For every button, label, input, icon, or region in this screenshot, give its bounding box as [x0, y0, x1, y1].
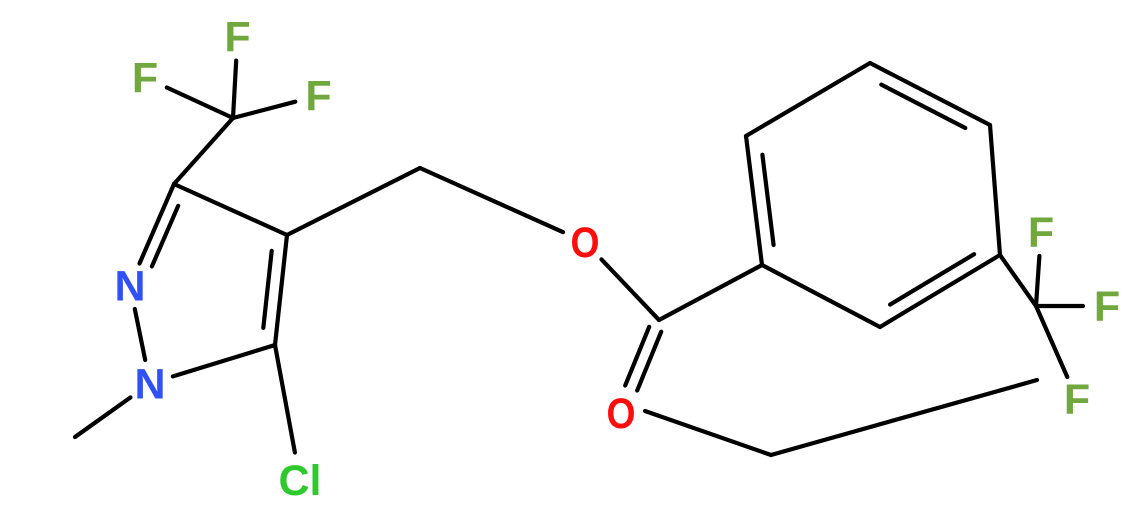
ring C4b-C5b — [990, 125, 1000, 255]
bond N1-methyl — [75, 397, 131, 437]
ring C3b-C4b — [870, 63, 990, 125]
svg-text:F: F — [305, 73, 331, 121]
chain V-AE — [771, 380, 1037, 455]
bond C3=N2 main — [140, 184, 175, 264]
bond CF3Cb-F6 — [1036, 306, 1067, 377]
svg-text:N: N — [114, 263, 145, 311]
bond N1-C5 — [173, 345, 275, 376]
chain O2-V — [645, 411, 771, 455]
svg-text:F: F — [224, 14, 250, 62]
svg-text:F: F — [1094, 283, 1120, 331]
bond CF3C-F2 — [167, 88, 233, 119]
svg-text:F: F — [1064, 376, 1090, 424]
bond C5-Cl — [275, 345, 295, 453]
ring C1=C2 inner — [762, 155, 773, 245]
svg-text:N: N — [134, 361, 165, 409]
ring C6b-C1 — [762, 265, 880, 327]
bond CF3Cb-F4 — [1036, 256, 1039, 306]
bond CH2-O1 — [420, 168, 563, 232]
bond C5-C4 main — [275, 235, 287, 345]
bond CF3C-C3 — [174, 118, 233, 184]
ring C3b=C4b inner — [881, 85, 965, 128]
bond C4=C5 inner — [263, 251, 271, 328]
bond CF3C-F1 (left CF3 top) — [233, 61, 236, 118]
bond CF3Cb-F5 — [1036, 304, 1083, 308]
ring C1-C2 — [746, 136, 762, 265]
bond Ca=O2 line1 — [637, 332, 661, 391]
bond Ca=O2 line2 — [625, 327, 649, 386]
svg-text:O: O — [571, 219, 600, 267]
bond C4-CH2 — [287, 168, 420, 235]
svg-text:F: F — [132, 55, 158, 103]
bond C3-C4 — [174, 184, 287, 235]
bond Ca-C1 — [659, 265, 762, 320]
bond CF3C-F3 — [233, 102, 295, 118]
ring C2-C3b — [746, 63, 870, 136]
bond C3=N2 inner — [152, 206, 178, 267]
bond O1-Ca — [602, 259, 660, 320]
svg-text:F: F — [1028, 209, 1054, 257]
bond N2-N1 — [135, 309, 145, 360]
svg-text:O: O — [607, 390, 636, 438]
svg-text:Cl: Cl — [279, 457, 322, 505]
bond C5b-CF3Cb — [1000, 255, 1036, 306]
ring C5b-C6b — [880, 255, 1000, 327]
ring C5b=C6b inner — [890, 254, 974, 304]
